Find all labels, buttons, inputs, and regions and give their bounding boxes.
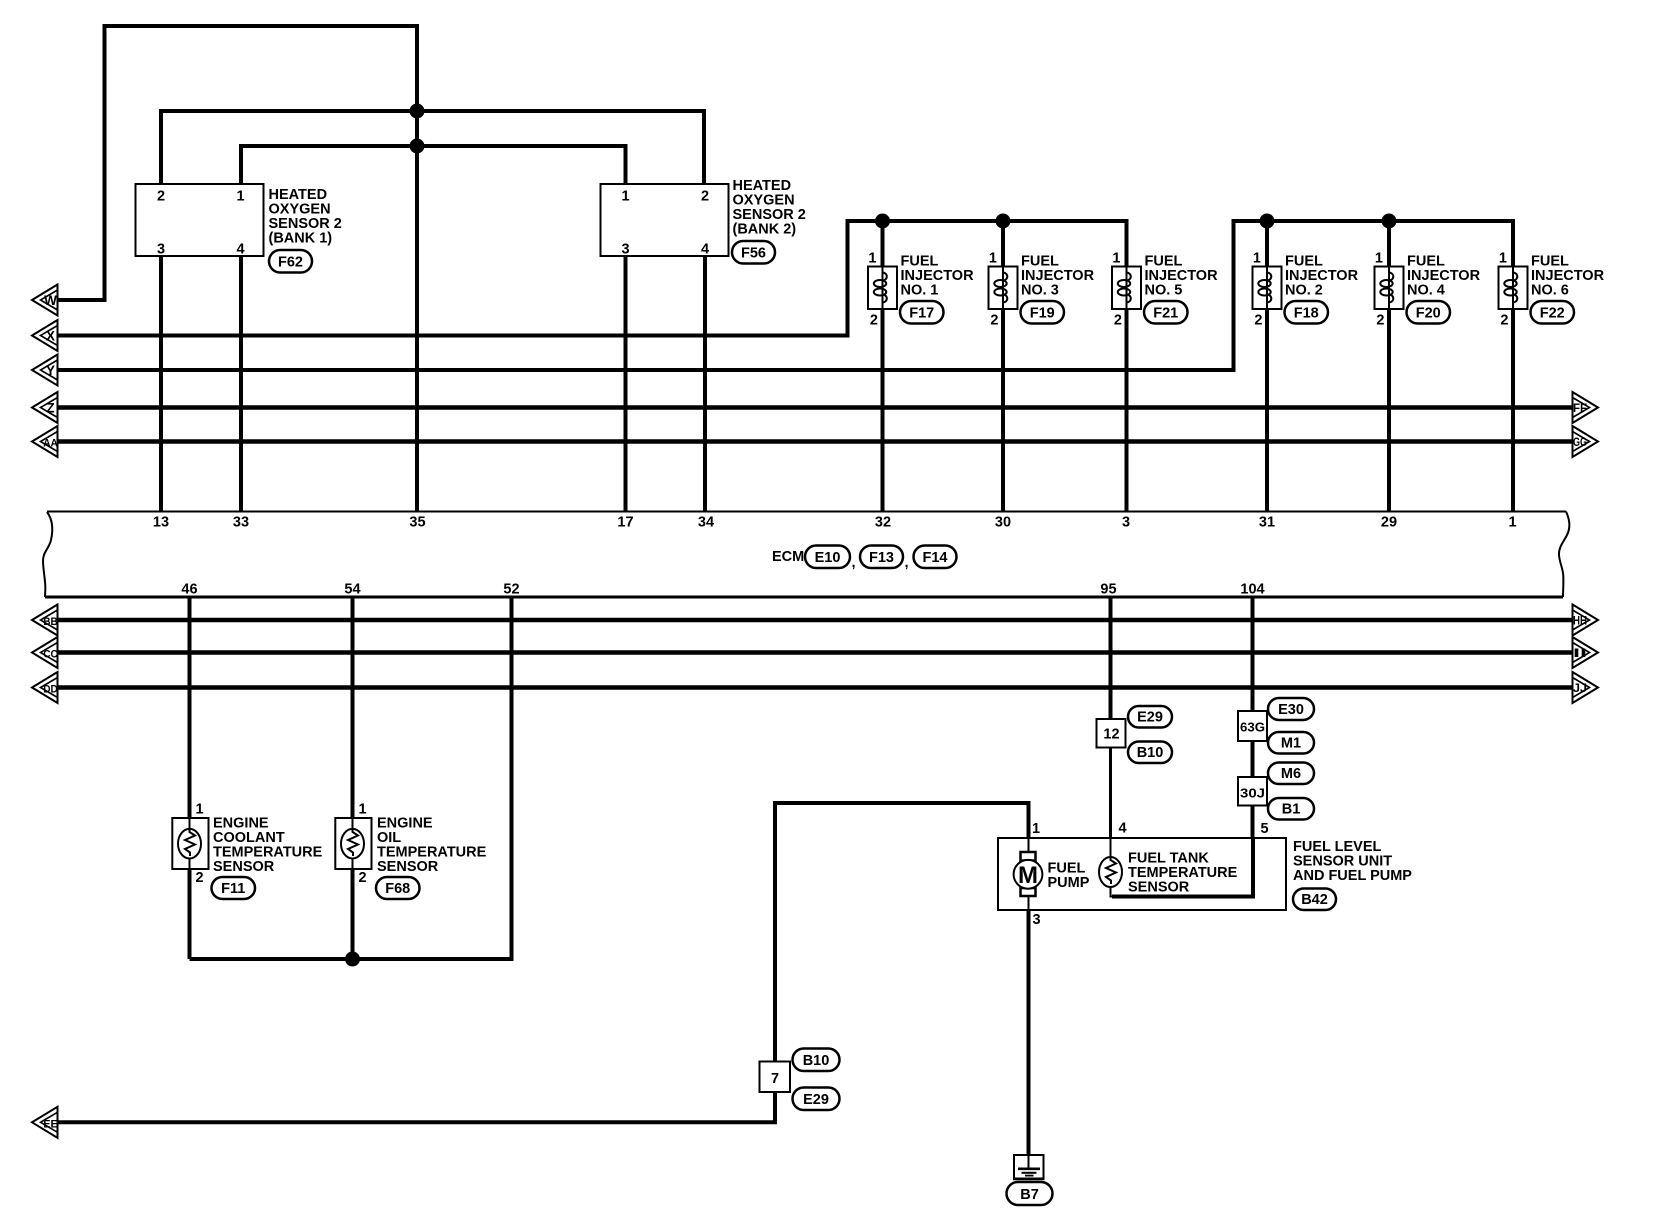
- svg-text:17: 17: [617, 515, 633, 531]
- off-page connector DD: [32, 672, 58, 703]
- wire DD to JJ: [57, 685, 1573, 690]
- svg-text:1: 1: [1112, 251, 1120, 267]
- svg-text:II: II: [1573, 648, 1587, 660]
- svg-text:NO. 2: NO. 2: [1285, 283, 1323, 299]
- svg-text:W: W: [44, 293, 57, 308]
- ECM pin 30: [995, 515, 1011, 531]
- wire fuel pump pin3 to body ground B7: [1027, 910, 1031, 1156]
- fuel injector No. 5 coil F21: [1112, 251, 1218, 329]
- ECM pin 32: [875, 515, 891, 531]
- harness connector 63G: [1238, 711, 1267, 741]
- svg-text:JJ: JJ: [1573, 683, 1587, 695]
- svg-text:2: 2: [157, 189, 165, 205]
- svg-text:F62: F62: [278, 255, 303, 271]
- svg-text:(BANK 1): (BANK 1): [269, 230, 333, 246]
- svg-text:30J: 30J: [1240, 787, 1265, 801]
- svg-text:2: 2: [196, 870, 204, 886]
- junction sensor ground bus: [345, 952, 360, 967]
- ECM pin 54: [344, 582, 360, 598]
- junction injector bus No.4: [1382, 214, 1397, 229]
- connector label M1: [1268, 732, 1314, 754]
- svg-text:F17: F17: [909, 306, 934, 322]
- svg-text:2: 2: [359, 870, 367, 886]
- svg-text:63G: 63G: [1240, 721, 1265, 735]
- fuel level sensor unit label: [1293, 839, 1412, 884]
- wire branch injector No.2 pin1: [1265, 221, 1269, 267]
- svg-text:30: 30: [995, 515, 1011, 531]
- svg-text:1: 1: [359, 802, 367, 818]
- fuel pump motor: [1014, 838, 1090, 910]
- connector label B42: [1293, 889, 1336, 911]
- connector label E29: [1128, 706, 1172, 728]
- svg-text:7: 7: [771, 1071, 779, 1087]
- svg-text:F20: F20: [1416, 306, 1441, 322]
- wire branch injector No.1 pin1: [881, 221, 885, 267]
- ECM pin 95: [1100, 582, 1116, 598]
- svg-text:2: 2: [1376, 313, 1384, 329]
- wire oil sensor pin2 to ground bus: [351, 869, 355, 959]
- svg-text:F21: F21: [1153, 306, 1178, 322]
- svg-text:F14: F14: [923, 550, 948, 566]
- svg-text:1: 1: [1375, 251, 1383, 267]
- svg-text:M1: M1: [1281, 736, 1301, 752]
- ECM pin 52: [503, 582, 519, 598]
- harness connector 7: [760, 1062, 791, 1093]
- svg-text:EE: EE: [43, 1118, 58, 1130]
- off-page connector II: [1573, 637, 1599, 668]
- svg-text:,: ,: [905, 555, 909, 571]
- svg-text:2: 2: [701, 189, 709, 205]
- svg-text:CC: CC: [43, 649, 58, 661]
- svg-text:B7: B7: [1020, 1187, 1039, 1203]
- harness connector 12: [1097, 719, 1126, 748]
- off-page connector AA: [32, 426, 58, 457]
- off-page connector CC: [32, 637, 58, 668]
- wire Y to injector 2-4-6 supply bus: [57, 221, 1513, 370]
- connector label E10: [805, 546, 856, 572]
- svg-text:4: 4: [1119, 821, 1127, 837]
- fuel injector No. 2 coil F18: [1253, 251, 1359, 329]
- connector label F17: [900, 301, 944, 324]
- fuel injector No. 1 coil F17: [868, 251, 974, 329]
- svg-text:SENSOR: SENSOR: [213, 859, 275, 875]
- svg-text:104: 104: [1240, 582, 1264, 598]
- ECM pin 35: [409, 515, 425, 531]
- ECM pin 3: [1122, 515, 1130, 531]
- off-page connector X: [32, 320, 58, 351]
- svg-text:F19: F19: [1030, 306, 1055, 322]
- svg-text:F18: F18: [1294, 306, 1319, 322]
- connector label F62: [269, 250, 312, 273]
- off-page connector Y: [32, 355, 58, 386]
- connector label F20: [1407, 301, 1451, 324]
- junction W net / pin2 bus: [410, 104, 425, 119]
- ECM pin 34: [698, 515, 714, 531]
- svg-text:,: ,: [852, 555, 856, 571]
- svg-text:B1: B1: [1282, 802, 1301, 818]
- wire injector No.5 pin2 to ECM pin 3: [1125, 309, 1129, 512]
- svg-text:F68: F68: [385, 881, 410, 897]
- svg-text:5: 5: [1261, 821, 1269, 837]
- wire HO2S bank1 pin2 to bank2 pin2 bus: [161, 111, 704, 184]
- wire branch injector No.4 pin1: [1387, 221, 1391, 267]
- svg-text:F11: F11: [221, 881, 245, 897]
- ECM pin 17: [617, 515, 633, 531]
- svg-text:1: 1: [1032, 821, 1040, 837]
- pin label 1 (fuel pump): [1032, 821, 1040, 837]
- svg-text:1: 1: [236, 189, 244, 205]
- connector label F14: [914, 546, 957, 569]
- svg-text:F13: F13: [869, 550, 894, 566]
- wire HO2S bank2 pin4 to ECM pin 34: [703, 256, 707, 512]
- wire ECM pin 46 to coolant sensor pin1: [188, 597, 192, 818]
- wire injector No.1 pin2 to ECM pin 32: [881, 309, 885, 512]
- svg-text:GG: GG: [1573, 437, 1587, 449]
- connector label F11: [212, 877, 256, 899]
- connector label F21: [1144, 301, 1188, 324]
- wire HO2S bank1 pin3 to ECM pin 13: [159, 256, 163, 512]
- svg-text:13: 13: [153, 515, 169, 531]
- connector label B1: [1268, 798, 1314, 820]
- wire HO2S bank1 pin4 to ECM pin 33: [239, 256, 243, 512]
- svg-text:NO. 6: NO. 6: [1531, 283, 1569, 299]
- heated oxygen sensor 2 bank 2 connector F56: [601, 178, 806, 258]
- fuel injector No. 3 coil F19: [989, 251, 1095, 329]
- ECM pin 31: [1259, 515, 1275, 531]
- connector label B10 (pump wire): [793, 1049, 840, 1072]
- svg-text:46: 46: [181, 582, 197, 598]
- svg-text:B10: B10: [1137, 745, 1164, 761]
- svg-text:PUMP: PUMP: [1048, 875, 1090, 891]
- svg-text:F22: F22: [1540, 306, 1565, 322]
- svg-text:E30: E30: [1278, 702, 1304, 718]
- svg-text:AA: AA: [43, 438, 58, 450]
- svg-text:(BANK 2): (BANK 2): [733, 221, 797, 237]
- svg-text:12: 12: [1103, 727, 1119, 743]
- svg-text:3: 3: [157, 242, 165, 258]
- svg-text:Y: Y: [46, 363, 55, 378]
- svg-text:1: 1: [989, 251, 997, 267]
- wire ECM pin 104 to fuel tank sensor pin5: [1251, 597, 1255, 838]
- svg-text:Z: Z: [46, 401, 54, 416]
- svg-text:3: 3: [1122, 515, 1130, 531]
- svg-text:54: 54: [344, 582, 360, 598]
- junction injector bus No.3: [996, 214, 1011, 229]
- svg-text:NO. 4: NO. 4: [1407, 283, 1445, 299]
- engine coolant temperature sensor F11: [172, 802, 322, 886]
- off-page connector HH: [1573, 605, 1599, 636]
- svg-text:NO. 1: NO. 1: [901, 283, 939, 299]
- off-page connector FF: [1573, 392, 1599, 423]
- junction injector bus No.2: [1260, 214, 1275, 229]
- connector label F22: [1531, 301, 1575, 324]
- svg-text:2: 2: [870, 313, 878, 329]
- fuel injector No. 4 coil F20: [1375, 251, 1481, 329]
- svg-text:31: 31: [1259, 515, 1275, 531]
- ECM connector strip: [43, 512, 1569, 598]
- svg-text:ECM: ECM: [772, 549, 804, 565]
- svg-text:1: 1: [1499, 251, 1507, 267]
- wire Z to FF: [57, 405, 1573, 410]
- wire BB to HH: [57, 618, 1573, 623]
- connector label M6: [1268, 763, 1314, 785]
- svg-text:X: X: [46, 329, 55, 344]
- connector label F56: [732, 241, 775, 264]
- svg-text:2: 2: [1254, 313, 1262, 329]
- svg-text:SENSOR: SENSOR: [1128, 880, 1190, 896]
- svg-text:52: 52: [503, 582, 519, 598]
- svg-text:HH: HH: [1573, 616, 1587, 628]
- svg-text:AND FUEL PUMP: AND FUEL PUMP: [1293, 868, 1412, 884]
- svg-text:NO. 5: NO. 5: [1145, 283, 1183, 299]
- off-page connector BB: [32, 605, 58, 636]
- wire X to injector 1-3-5 supply bus: [57, 221, 1127, 336]
- wire HO2S bank1 pin1 to bank2 pin1 bus: [241, 146, 626, 184]
- connector label F18: [1285, 301, 1329, 324]
- svg-text:4: 4: [701, 242, 709, 258]
- svg-text:F56: F56: [741, 246, 766, 262]
- svg-text:4: 4: [236, 242, 244, 258]
- connector label B10: [1128, 742, 1172, 764]
- junction W net / pin1 bus: [410, 139, 425, 154]
- wire ECM pin 52 to sensor ground bus: [190, 597, 512, 959]
- svg-text:B10: B10: [803, 1053, 830, 1069]
- wire W to ECM pin 35 net: [57, 26, 417, 512]
- off-page connector GG: [1573, 426, 1599, 457]
- ECM pin 104: [1240, 582, 1264, 598]
- svg-text:2: 2: [1114, 313, 1122, 329]
- off-page connector JJ: [1573, 672, 1599, 703]
- svg-text:E29: E29: [803, 1092, 829, 1108]
- svg-text:NO. 3: NO. 3: [1021, 283, 1059, 299]
- wire EE to fuel pump pin1: [57, 803, 1029, 1122]
- pin label 3 (fuel pump): [1033, 912, 1041, 928]
- svg-text:33: 33: [233, 515, 249, 531]
- svg-text:3: 3: [1033, 912, 1041, 928]
- junction injector bus No.1: [875, 214, 890, 229]
- wire CC to II: [57, 650, 1573, 655]
- svg-text:34: 34: [698, 515, 714, 531]
- wire injector No.3 pin2 to ECM pin 30: [1001, 309, 1005, 512]
- body ground symbol: [1013, 1155, 1045, 1179]
- connector label E30: [1268, 698, 1314, 720]
- ECM pin 46: [181, 582, 197, 598]
- svg-text:M6: M6: [1281, 766, 1301, 782]
- engine oil temperature sensor F68: [335, 802, 486, 886]
- svg-text:M: M: [1018, 862, 1038, 889]
- wire branch injector No.3 pin1: [1001, 221, 1005, 267]
- connector label F19: [1021, 301, 1065, 324]
- svg-text:SENSOR: SENSOR: [377, 859, 439, 875]
- off-page connector Z: [32, 392, 58, 423]
- svg-text:1: 1: [1508, 515, 1516, 531]
- pin label 5 (tank sensor): [1261, 821, 1269, 837]
- svg-text:1: 1: [621, 189, 629, 205]
- svg-text:B42: B42: [1301, 892, 1328, 908]
- ECM pin 33: [233, 515, 249, 531]
- ECM pin 1: [1508, 515, 1516, 531]
- fuel injector No. 6 coil F22: [1499, 251, 1605, 329]
- svg-text:2: 2: [1500, 313, 1508, 329]
- wire injector No.4 pin2 to ECM pin 29: [1387, 309, 1391, 512]
- harness connector 30J: [1238, 777, 1267, 806]
- wire ECM pin 95 to fuel tank sensor pin4: [1109, 597, 1113, 719]
- off-page connector EE: [32, 1107, 58, 1138]
- svg-text:E10: E10: [815, 550, 841, 566]
- wire coolant sensor pin2 to ground bus: [188, 869, 192, 959]
- ECM label: [772, 549, 804, 565]
- svg-text:3: 3: [621, 242, 629, 258]
- off-page connector W: [32, 285, 58, 316]
- svg-text:2: 2: [990, 313, 998, 329]
- svg-text:1: 1: [196, 802, 204, 818]
- connector label F13: [860, 546, 909, 572]
- svg-text:BB: BB: [43, 616, 58, 628]
- ECM pin 29: [1381, 515, 1397, 531]
- svg-text:32: 32: [875, 515, 891, 531]
- ECM pin 13: [153, 515, 169, 531]
- svg-text:35: 35: [409, 515, 425, 531]
- pin label 4 (tank sensor): [1119, 821, 1127, 837]
- svg-text:95: 95: [1100, 582, 1116, 598]
- wire AA to GG: [57, 439, 1573, 444]
- svg-text:E29: E29: [1137, 710, 1163, 726]
- svg-text:1: 1: [1253, 251, 1261, 267]
- svg-text:DD: DD: [43, 684, 58, 696]
- fuel tank temperature sensor: [1099, 838, 1253, 897]
- wire connector 12 to fuel tank sensor pin4: [1109, 748, 1112, 839]
- heated oxygen sensor 2 bank 1 connector F62: [136, 184, 342, 258]
- wire HO2S bank2 pin3 to ECM pin 17: [624, 256, 628, 512]
- connector label E29 (pump wire): [793, 1088, 840, 1111]
- svg-text:FF: FF: [1573, 403, 1587, 415]
- svg-text:29: 29: [1381, 515, 1397, 531]
- wire injector No.2 pin2 to ECM pin 31: [1265, 309, 1269, 512]
- wire ECM pin 54 to oil sensor pin1: [351, 597, 355, 818]
- wire injector No.6 pin2 to ECM pin 1: [1511, 309, 1515, 512]
- svg-text:1: 1: [868, 251, 876, 267]
- connector label B7: [1007, 1182, 1053, 1205]
- fuel level sensor unit outer box: [998, 838, 1286, 910]
- connector label F68: [376, 877, 420, 899]
